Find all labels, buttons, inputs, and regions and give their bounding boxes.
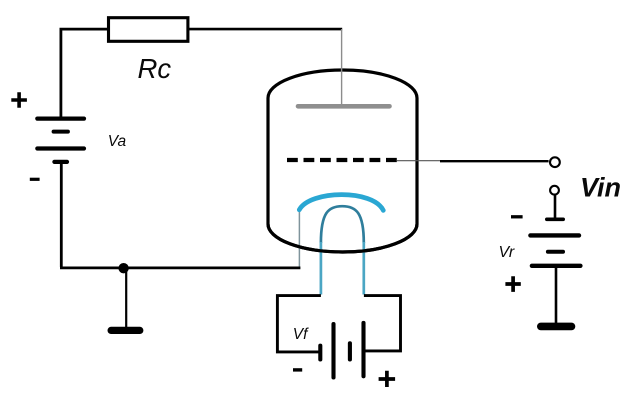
label plus Va [11, 92, 27, 108]
terminal Vin lower [550, 186, 559, 195]
wire Va minus terminal down [60, 162, 63, 267]
wire junction to ground [125, 268, 127, 327]
wire grid to Vin terminal [440, 160, 549, 162]
battery Vf [320, 323, 363, 378]
label minus Vf [293, 368, 302, 371]
label minus Vr [511, 215, 523, 218]
svg-text:Vin: Vin [580, 173, 621, 203]
wire from Va plus terminal up and right to resistor [61, 29, 109, 118]
svg-text:Rc: Rc [138, 53, 172, 84]
Vf box left [277, 296, 321, 352]
wire Vr battery to ground [555, 267, 558, 323]
filament legs [321, 242, 364, 295]
wire grid lead thin [397, 160, 441, 162]
vacuum tube envelope [268, 70, 417, 252]
terminal Vin upper [550, 157, 560, 167]
svg-text:Vf: Vf [293, 326, 309, 343]
junction dot [118, 263, 128, 273]
svg-text:Va: Va [108, 133, 127, 150]
wire Vin lower terminal to Vr battery [554, 195, 557, 219]
label plus Vf [379, 371, 396, 387]
tube bottom edge over legs [268, 224, 417, 252]
resistor Rc [109, 18, 188, 42]
wire resistor to plate lead corner [188, 28, 342, 31]
battery Va [37, 119, 84, 162]
Vf box right [364, 296, 401, 351]
battery Vr [530, 219, 580, 265]
wire anode plate lead (thin gray) [341, 29, 343, 106]
ground (right) [541, 323, 572, 331]
ground (left) [111, 327, 140, 334]
grid (dashed control grid) [287, 158, 399, 162]
filament heater arch [321, 206, 364, 243]
wire bottom horizontal [60, 266, 300, 269]
label minus Va [30, 178, 40, 181]
cathode (blue arc) [299, 195, 383, 211]
svg-text:Vr: Vr [499, 244, 515, 261]
label plus Vr [505, 276, 520, 292]
wire cathode lead (thin) [298, 210, 300, 267]
anode plate [298, 104, 390, 109]
